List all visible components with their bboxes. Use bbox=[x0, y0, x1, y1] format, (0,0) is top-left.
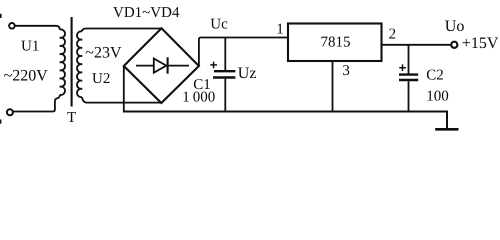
ground rail wire bbox=[123, 110, 447, 112]
ground symbol bar bbox=[435, 128, 458, 131]
wire: C1 bottom to ground rail bbox=[224, 79, 226, 112]
svg-text:VD1~VD4: VD1~VD4 bbox=[113, 5, 180, 21]
capacitor C1 top plate bbox=[214, 70, 235, 72]
wire: bridge right vertex up and right to regulator pin 1 bbox=[199, 38, 288, 67]
capacitor C1 plus polarity mark bbox=[210, 62, 217, 69]
svg-text:Uz: Uz bbox=[238, 65, 257, 82]
terminal: AC input top-left bbox=[9, 23, 15, 29]
wire: secondary bottom lead bbox=[82, 97, 160, 103]
svg-text:Uo: Uo bbox=[445, 18, 465, 35]
wire: C2 bottom to ground rail bbox=[408, 81, 410, 111]
wire: secondary top lead bbox=[82, 29, 160, 32]
svg-text:U1: U1 bbox=[21, 39, 39, 55]
svg-text:2: 2 bbox=[389, 27, 397, 43]
regulator IC 7815 box bbox=[288, 24, 382, 62]
wire: C2 top bbox=[408, 45, 410, 74]
transformer secondary winding U2 bbox=[77, 31, 82, 97]
ground symbol stem bbox=[446, 111, 448, 129]
terminal: AC input bottom-left bbox=[7, 109, 13, 115]
svg-text:1 000: 1 000 bbox=[182, 90, 215, 106]
bridge rectifier VD1~VD4 diamond bbox=[124, 28, 199, 103]
svg-text:3: 3 bbox=[342, 63, 350, 79]
diode symbol triangle bbox=[154, 59, 167, 73]
diode symbol cathode bar bbox=[167, 57, 169, 73]
svg-text:7815: 7815 bbox=[321, 34, 351, 50]
svg-text:T: T bbox=[67, 110, 76, 126]
terminal: +15V output bbox=[451, 42, 457, 48]
capacitor C2 plus polarity mark bbox=[399, 64, 406, 71]
capacitor C2 bottom plate bbox=[399, 79, 418, 81]
svg-text:Uc: Uc bbox=[210, 17, 228, 33]
wire: bridge left vertex down to ground rail bbox=[123, 66, 125, 112]
svg-text:+15V: +15V bbox=[462, 35, 499, 52]
svg-text:~23V: ~23V bbox=[85, 45, 122, 62]
svg-text:U2: U2 bbox=[92, 71, 110, 87]
scan artifact left edge top bbox=[0, 14, 2, 18]
diode symbol cathode lead bbox=[168, 65, 189, 67]
diode symbol anode lead bbox=[136, 65, 154, 67]
wire: regulator pin 3 down to ground rail bbox=[332, 61, 334, 111]
transformer core bbox=[71, 17, 73, 107]
scan artifact left edge bottom bbox=[0, 120, 1, 124]
capacitor C1 bottom plate bbox=[213, 76, 235, 78]
svg-text:~220V: ~220V bbox=[4, 68, 49, 85]
svg-text:100: 100 bbox=[426, 88, 449, 104]
wire: primary bottom lead bbox=[13, 95, 60, 112]
wire: primary top lead bbox=[15, 26, 60, 30]
node: Uc / C1 top wire bbox=[224, 38, 226, 71]
svg-text:C2: C2 bbox=[426, 68, 444, 84]
wire: regulator pin 2 output bbox=[382, 44, 452, 46]
transformer primary winding U1 bbox=[60, 29, 65, 94]
svg-text:1: 1 bbox=[276, 22, 284, 38]
capacitor C2 top plate bbox=[399, 73, 418, 75]
